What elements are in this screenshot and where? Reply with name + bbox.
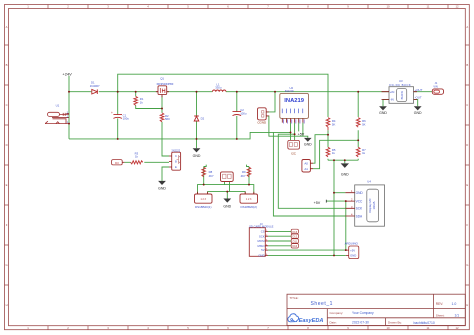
svg-text:CGND: CGND — [257, 121, 267, 125]
transistor Q2 2N2222 — [169, 150, 181, 171]
svg-text:12: 12 — [455, 4, 459, 8]
wire ground rail bottom — [69, 132, 273, 139]
svg-text:D12: D12 — [293, 236, 298, 239]
connector CGND — [257, 108, 269, 125]
svg-text:8: 8 — [307, 326, 309, 330]
svg-text:F: F — [6, 223, 8, 227]
svg-text:+OUT: +OUT — [415, 88, 423, 92]
svg-text:G: G — [466, 263, 468, 267]
svg-text:2: 2 — [67, 326, 69, 330]
svg-text:4K7: 4K7 — [209, 174, 214, 178]
wire DS18B20 outer data bus — [198, 185, 254, 194]
svg-text:A1: A1 — [304, 167, 308, 171]
svg-text:A: A — [466, 25, 468, 29]
net port D12 — [291, 234, 298, 239]
svg-text:6: 6 — [227, 326, 229, 330]
net port D13 — [291, 229, 298, 234]
svg-text:SCK: SCK — [356, 207, 363, 211]
svg-text:1/1: 1/1 — [455, 313, 460, 317]
svg-text:2: 2 — [67, 4, 69, 8]
svg-text:SD CARD MODULE: SD CARD MODULE — [249, 224, 274, 228]
wire DS18B20 inner bus — [208, 192, 246, 194]
svg-text:IRF9540NPBF: IRF9540NPBF — [157, 82, 174, 86]
svg-text:D10: D10 — [293, 245, 298, 248]
svg-text:10: 10 — [386, 4, 390, 8]
DC jack U1 — [45, 112, 69, 123]
svg-text:5: 5 — [187, 326, 189, 330]
wire CGND connector taps — [266, 92, 307, 138]
wire input sense loop to R4 — [118, 74, 328, 117]
svg-text:D2: D2 — [201, 117, 205, 121]
wire SD card SPI lines — [268, 231, 291, 245]
wire GND bus to SD and ARDUINO — [268, 254, 346, 256]
svg-text:C: C — [175, 154, 177, 158]
svg-text:GND: GND — [304, 142, 312, 146]
ground symbol U3 input — [379, 106, 387, 115]
svg-text:4: 4 — [147, 4, 149, 8]
display U4 LCD1602 I2C — [345, 180, 384, 227]
wire Q2 emitter to GND — [162, 167, 169, 181]
svg-text:5V: 5V — [261, 248, 265, 252]
svg-text:MOSI: MOSI — [257, 239, 264, 243]
IC U2 INA219 — [280, 86, 309, 123]
title block frame — [287, 294, 465, 325]
svg-text:DC-DC BUCK: DC-DC BUCK — [389, 83, 411, 87]
svg-text:GND: GND — [356, 191, 364, 195]
svg-text:E: E — [6, 183, 8, 187]
svg-text:EasyEDA: EasyEDA — [299, 318, 324, 324]
wire R8 pullup — [204, 165, 207, 185]
svg-text:Company:: Company: — [330, 311, 344, 315]
svg-text:100u: 100u — [240, 112, 247, 116]
svg-text:1.0: 1.0 — [452, 302, 457, 306]
svg-text:3: 3 — [107, 326, 109, 330]
svg-text:4K7: 4K7 — [241, 174, 246, 178]
ground symbol between sensors — [223, 199, 231, 209]
svg-text:E: E — [466, 183, 468, 187]
svg-text:Your Company: Your Company — [352, 311, 374, 315]
svg-text:11: 11 — [427, 326, 430, 330]
svg-text:C: C — [466, 103, 468, 107]
svg-text:3: 3 — [107, 4, 109, 8]
capacitor C1 100u — [111, 111, 129, 121]
svg-text:560: 560 — [165, 117, 170, 121]
svg-text:D: D — [6, 143, 8, 147]
wire INA219 5V pin stub — [298, 123, 300, 132]
sensor DS18B20(2) — [240, 192, 258, 209]
svg-text:G: G — [6, 263, 8, 267]
svg-text:A0: A0 — [304, 162, 308, 166]
svg-text:U4: U4 — [367, 180, 371, 184]
svg-text:+: + — [111, 111, 113, 115]
svg-text:Date:: Date: — [330, 321, 337, 325]
resistor R5 1k — [326, 147, 336, 157]
wire +5V flag to U4 VCC — [326, 200, 345, 202]
svg-text:1k: 1k — [140, 100, 144, 104]
wire D2 branch — [196, 92, 198, 149]
svg-text:GND: GND — [341, 173, 349, 177]
svg-text:1N4007: 1N4007 — [90, 84, 100, 88]
svg-text:10: 10 — [386, 326, 390, 330]
resistor R3 1k — [131, 151, 143, 164]
wire A0 tap from input divider — [313, 135, 328, 164]
diode D1 1N4007 — [92, 89, 98, 94]
wire U4 GND pin — [334, 192, 345, 194]
svg-text:8: 8 — [307, 4, 309, 8]
svg-text:Drawn By:: Drawn By: — [388, 321, 402, 325]
svg-text:DS18B20(2): DS18B20(2) — [240, 205, 257, 209]
svg-text:2N2222: 2N2222 — [171, 150, 180, 153]
svg-text:1: 1 — [27, 4, 29, 8]
capacitor C2 100u — [233, 108, 247, 115]
wire 5V bus to SD and ARDUINO — [268, 249, 346, 251]
svg-text:B: B — [466, 63, 468, 67]
svg-text:7: 7 — [267, 326, 269, 330]
wire mid GND stem — [226, 192, 228, 199]
wire U3 +OUT to VIN connector — [414, 91, 433, 93]
wire C1 branch — [117, 92, 119, 139]
svg-text:SCK: SCK — [259, 234, 265, 238]
svg-text:GND: GND — [350, 254, 356, 258]
svg-text:F: F — [466, 223, 468, 227]
svg-text:+24V: +24V — [62, 72, 72, 77]
svg-text:GND: GND — [258, 254, 264, 258]
svg-text:VIN: VIN — [433, 84, 437, 88]
ground symbol under Q2 — [158, 181, 166, 191]
net port D3 — [112, 160, 125, 165]
svg-text:E: E — [175, 165, 177, 169]
net port D11 — [291, 239, 298, 244]
svg-text:INA219: INA219 — [284, 98, 304, 104]
wire GND net vertical to U4 and bottom — [333, 160, 335, 255]
svg-text:1 2 3: 1 2 3 — [201, 198, 207, 201]
wire R3 to Q2 base — [124, 161, 169, 163]
svg-text:GND: GND — [158, 187, 166, 191]
svg-text:I2C: I2C — [291, 151, 297, 155]
svg-text:Sheet:: Sheet: — [436, 313, 445, 317]
svg-text:INA219: INA219 — [285, 89, 294, 93]
wire INA219 SCL tap to U4 — [278, 123, 345, 209]
wire C2 branch — [236, 92, 238, 139]
svg-text:U1: U1 — [56, 103, 60, 107]
svg-text:12: 12 — [455, 326, 459, 330]
svg-text:D: D — [466, 143, 468, 147]
connector J1 VIN — [432, 81, 443, 94]
svg-text:4: 4 — [147, 326, 149, 330]
svg-text:-OUT: -OUT — [415, 96, 422, 100]
EasyEDA logo — [288, 314, 324, 324]
wire INA219 SDA tap to U4 — [273, 123, 345, 216]
svg-text:100u: 100u — [123, 117, 130, 121]
wire A1 tap from output divider — [313, 140, 358, 168]
svg-text:VCC: VCC — [356, 199, 363, 203]
svg-text:Q1: Q1 — [160, 77, 164, 81]
resistor R2 560 — [160, 113, 170, 122]
net port D10 — [291, 244, 298, 249]
wire output rail L1 to U3 +IN — [226, 91, 389, 93]
wire +24V rail input — [69, 91, 158, 93]
inductor L1 330u — [212, 82, 226, 91]
net flag +5V at INA219 — [298, 132, 305, 136]
svg-text:-IN: -IN — [390, 98, 394, 102]
svg-text:GND: GND — [379, 111, 387, 115]
wire R9 pullup — [247, 165, 250, 185]
wire +5V vertical down — [345, 201, 347, 250]
svg-text:SDA: SDA — [356, 214, 363, 218]
svg-text:D11: D11 — [293, 240, 298, 243]
svg-text:C: C — [6, 103, 8, 107]
svg-text:D3: D3 — [115, 161, 119, 165]
connector I2C — [288, 140, 300, 155]
svg-text:BUCK: BUCK — [400, 91, 404, 99]
svg-text:D13: D13 — [293, 231, 298, 234]
net flag +5V at U4 — [314, 200, 327, 205]
svg-text:1602A: 1602A — [372, 201, 376, 209]
connector ARDUINO power — [345, 242, 359, 259]
resistor R4 5K — [326, 118, 336, 131]
svg-text:GND: GND — [223, 204, 231, 208]
diode D2 freewheel — [194, 116, 204, 121]
svg-text:2022-07-30: 2022-07-30 — [352, 321, 369, 325]
svg-text:1 2 3: 1 2 3 — [246, 198, 252, 201]
resistor R8 4K7 — [202, 167, 214, 178]
title block texts — [290, 296, 460, 325]
svg-text:+5V: +5V — [298, 132, 305, 136]
svg-text:ARDUINO: ARDUINO — [345, 242, 359, 246]
svg-text:7: 7 — [267, 4, 269, 8]
svg-text:5K: 5K — [332, 123, 336, 127]
svg-text:Sheet_1: Sheet_1 — [311, 301, 333, 307]
wire divider ground bar — [328, 160, 358, 163]
svg-text:11: 11 — [427, 4, 430, 8]
svg-text:DS18B20(1): DS18B20(1) — [195, 205, 212, 209]
svg-text:A: A — [6, 25, 8, 29]
svg-text:9: 9 — [347, 326, 349, 330]
ground symbol under D2 — [193, 148, 201, 158]
svg-text:bachitdtu0710: bachitdtu0710 — [414, 321, 435, 325]
resistor R7 1k — [356, 147, 366, 157]
svg-text:+5V: +5V — [314, 201, 321, 205]
svg-text:1: 1 — [27, 326, 29, 330]
connector A0 A1 — [302, 160, 313, 173]
resistor R1 1k — [134, 96, 144, 105]
svg-text:CS: CS — [261, 230, 265, 234]
resistor R9 4K7 — [241, 167, 251, 178]
wire header J pins down — [225, 182, 230, 192]
svg-text:5K: 5K — [362, 123, 366, 127]
ground symbol under dividers — [341, 163, 350, 176]
wire Q1 gate / R2 / Q2 collector — [162, 96, 169, 157]
connector J3 SD CARD MODULE — [249, 222, 274, 258]
svg-text:GND: GND — [414, 111, 422, 115]
svg-text:9: 9 — [347, 4, 349, 8]
svg-text:H: H — [466, 303, 468, 307]
ground symbol at INA219 — [304, 138, 312, 147]
ground symbol U3 output — [414, 106, 422, 115]
svg-text:+IN: +IN — [390, 90, 395, 94]
wire +24V flag stub and DC jack vertical — [68, 76, 70, 139]
wire U3 -IN to GND — [383, 99, 389, 106]
svg-text:6: 6 — [227, 4, 229, 8]
svg-text:B: B — [175, 160, 177, 164]
net flag +24V — [62, 72, 72, 77]
MOSFET Q1 IRF9540NPBF — [156, 77, 174, 98]
svg-text:TITLE:: TITLE: — [290, 296, 299, 300]
svg-text:330u: 330u — [215, 86, 222, 90]
svg-text:5: 5 — [187, 4, 189, 8]
wire R1 branch — [136, 92, 162, 109]
wire U3 -OUT to GND — [414, 99, 418, 106]
resistor R6 5K — [356, 118, 366, 128]
wire R6 R7 output divider — [357, 92, 359, 161]
svg-text:+5V: +5V — [350, 248, 355, 252]
svg-text:GND: GND — [193, 154, 201, 158]
wire switch node Q1 to L1 — [167, 91, 213, 93]
sensor DS18B20(1) — [195, 192, 213, 209]
svg-text:B: B — [6, 63, 8, 67]
svg-text:H: H — [6, 303, 8, 307]
wire INA219 GND pin — [302, 123, 304, 137]
svg-text:REV:: REV: — [436, 302, 443, 306]
module U3 DC-DC BUCK — [382, 79, 423, 103]
connector header J2 — [221, 172, 234, 182]
wire R4 R5 input divider — [327, 130, 329, 160]
